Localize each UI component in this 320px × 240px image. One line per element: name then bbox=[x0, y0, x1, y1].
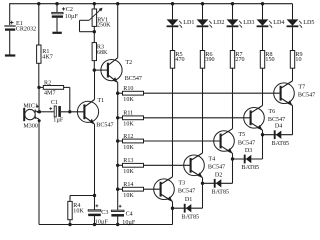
label R5 bbox=[175, 52, 182, 58]
wire: T3 emitter lead bbox=[172, 202, 174, 209]
label 10K (R11) bbox=[123, 122, 134, 128]
junction dot: T1 emitter / R4 / C3 node bbox=[93, 194, 96, 197]
diode D1 triangle bbox=[186, 204, 192, 212]
transistor T3 body bbox=[154, 179, 175, 200]
wire: T2 collector to top rail bbox=[117, 4, 119, 58]
svg-text:10K: 10K bbox=[123, 145, 134, 151]
label 1µF bbox=[53, 117, 64, 123]
svg-text:10K: 10K bbox=[73, 208, 84, 214]
wire: T1 collector to R3 node bbox=[93, 70, 95, 99]
svg-text:C2: C2 bbox=[66, 7, 73, 13]
junction dot: C4 on ground rail bbox=[116, 223, 119, 226]
wire: T1 emitter column bbox=[94, 124, 96, 195]
wire: mic minus to ground rail bbox=[38, 119, 40, 225]
wire: R2 right lead bbox=[64, 87, 70, 111]
wire: C3 to ground bbox=[94, 216, 96, 224]
wire: diode D4 run bbox=[263, 134, 293, 136]
resistor R12 bbox=[123, 139, 144, 143]
transistor T7 emitter bbox=[281, 98, 292, 105]
label 4M7 bbox=[44, 91, 56, 97]
wire: D2 up to next emitter node bbox=[232, 159, 234, 183]
svg-text:10µF: 10µF bbox=[95, 220, 109, 226]
LED LD4 light arrows bbox=[269, 21, 273, 28]
wire: diode D3 run bbox=[233, 158, 263, 160]
LED LD1 light arrows bbox=[179, 21, 183, 28]
label 10 (R9) bbox=[295, 57, 301, 63]
wire: C2 top lead bbox=[56, 4, 58, 13]
C2 plus sign bbox=[62, 7, 65, 10]
transistor T1 collector bbox=[85, 100, 95, 107]
label LD2 bbox=[213, 20, 224, 26]
wire: battery top lead bbox=[9, 4, 11, 25]
svg-text:T3: T3 bbox=[178, 180, 185, 186]
resistor R10 bbox=[123, 91, 144, 95]
MIC1 plus sign bbox=[36, 105, 39, 108]
svg-text:BAT85: BAT85 bbox=[182, 214, 200, 220]
microphone MIC1 plus pin bbox=[35, 110, 39, 113]
label 10K (R4) bbox=[73, 208, 84, 214]
transistor T4 body bbox=[184, 155, 205, 176]
label C4 bbox=[126, 212, 133, 218]
junction dot: C1/R2 node bbox=[68, 110, 71, 113]
svg-text:390: 390 bbox=[205, 57, 214, 63]
wire: R11 to transistor base bbox=[144, 117, 251, 119]
svg-text:CR2032: CR2032 bbox=[16, 26, 36, 32]
resistor R7 bbox=[230, 51, 234, 69]
wire: R14 left lead bbox=[118, 188, 123, 190]
label BC547 (T1) bbox=[96, 123, 113, 129]
wire: battery bottom lead bbox=[9, 31, 11, 55]
diode D3 cathode bar bbox=[244, 155, 246, 164]
svg-text:BAT85: BAT85 bbox=[272, 141, 290, 147]
wire: C3 top lead bbox=[94, 196, 96, 210]
wire: T7 emitter lead bbox=[292, 106, 294, 135]
label LD1 bbox=[183, 20, 194, 26]
wire: T2 emitter column bbox=[117, 82, 119, 210]
label R3 bbox=[97, 45, 104, 51]
label 10µF (C4) bbox=[122, 220, 136, 226]
wire: bottom ground rail bbox=[39, 224, 173, 226]
wire: R6 to T4 collector bbox=[202, 68, 204, 153]
wire: R10 to transistor base bbox=[144, 92, 281, 94]
junction dot: R4 on ground rail bbox=[68, 223, 71, 226]
svg-text:T7: T7 bbox=[298, 84, 305, 90]
junction dot: LED column 4 on top rail bbox=[261, 2, 264, 5]
transistor T2 collector bbox=[109, 58, 118, 65]
resistor R4 bbox=[68, 201, 72, 219]
transistor T3 emitter bbox=[161, 194, 172, 201]
label T3 bbox=[178, 180, 185, 186]
resistor R5 bbox=[170, 51, 174, 69]
resistor R11 bbox=[123, 116, 144, 120]
wire: R9 to T7 collector bbox=[292, 68, 294, 81]
svg-text:R10: R10 bbox=[123, 86, 133, 92]
capacitor C3 minus plate bbox=[88, 214, 101, 217]
transistor T6 base bar bbox=[250, 110, 252, 125]
diode D2 triangle bbox=[216, 179, 222, 187]
svg-text:470: 470 bbox=[175, 57, 184, 63]
transistor T3 collector bbox=[161, 177, 172, 184]
svg-text:1µF: 1µF bbox=[53, 117, 64, 123]
LED LD4 cathode bar bbox=[257, 25, 269, 27]
svg-text:BC547: BC547 bbox=[298, 93, 315, 99]
svg-text:BAT85: BAT85 bbox=[242, 165, 260, 171]
potentiometer RV1 body bbox=[92, 9, 97, 26]
wire: RV1 top lead bbox=[93, 4, 95, 9]
potentiometer RV1 wiper arrow bbox=[89, 8, 103, 21]
label R11 bbox=[123, 111, 133, 117]
svg-text:LD1: LD1 bbox=[183, 20, 194, 26]
label BC547 (T5) bbox=[238, 140, 255, 146]
label D2 bbox=[215, 172, 222, 178]
label 150 (R8) bbox=[265, 57, 274, 63]
svg-text:R13: R13 bbox=[123, 158, 133, 164]
label T5 bbox=[238, 132, 245, 138]
transistor T5 body bbox=[214, 131, 235, 152]
label R12 bbox=[123, 134, 133, 140]
wire: LD3 anode lead bbox=[232, 4, 234, 20]
transistor T2 emitter bbox=[109, 75, 118, 82]
svg-text:T2: T2 bbox=[125, 60, 132, 66]
wire: R1 column to mic node bbox=[38, 87, 40, 111]
junction dot: LED column 2 on top rail bbox=[201, 2, 204, 5]
wire: R5 to T3 collector bbox=[172, 68, 174, 177]
resistor R14 bbox=[123, 187, 144, 191]
svg-text:10µF: 10µF bbox=[122, 220, 136, 226]
wire: C4 to ground bbox=[117, 217, 119, 225]
battery E1 negative plate bbox=[5, 28, 15, 30]
label BAT85 (D4) bbox=[272, 141, 290, 147]
label 10K (R14) bbox=[123, 193, 134, 199]
label BC547 (T7) bbox=[298, 93, 315, 99]
transistor T1 base bar bbox=[83, 104, 85, 119]
junction dot: R13 tap bbox=[116, 164, 119, 167]
junction dot: R11 tap bbox=[116, 116, 119, 119]
wire: LED to R5 bbox=[172, 27, 174, 50]
svg-text:T1: T1 bbox=[97, 98, 104, 104]
capacitor C3 plus plate bbox=[88, 210, 101, 211]
svg-text:LD5: LD5 bbox=[303, 20, 314, 26]
wire: T5 emitter lead bbox=[232, 153, 234, 159]
svg-text:R11: R11 bbox=[123, 111, 133, 117]
LED LD3 light arrows bbox=[239, 21, 243, 28]
svg-text:C4: C4 bbox=[126, 212, 133, 218]
label BC547 (T3) bbox=[178, 189, 195, 195]
wire: RV1 wiper return bbox=[80, 20, 95, 31]
wire: R13 left lead bbox=[118, 164, 123, 166]
wire: LED to R8 bbox=[262, 27, 264, 50]
svg-text:LD3: LD3 bbox=[243, 20, 254, 26]
wire: C2 bottom lead bbox=[56, 18, 58, 32]
label BAT85 (D3) bbox=[242, 165, 260, 171]
label 10K (R13) bbox=[123, 169, 134, 175]
LED LD2 light arrows bbox=[209, 21, 213, 28]
battery E1 positive plate bbox=[4, 25, 15, 27]
label C2 bbox=[66, 7, 73, 13]
transistor T2 body bbox=[101, 60, 122, 81]
svg-text:10µF: 10µF bbox=[65, 14, 79, 20]
svg-text:LD4: LD4 bbox=[273, 20, 284, 26]
svg-text:C1: C1 bbox=[51, 100, 58, 106]
svg-text:M300: M300 bbox=[23, 124, 38, 130]
label R9 bbox=[295, 52, 302, 58]
wire: diode D1 run bbox=[173, 207, 203, 209]
transistor T5 collector bbox=[221, 129, 232, 136]
svg-text:LD2: LD2 bbox=[213, 20, 224, 26]
capacitor C2 positive plate bbox=[52, 12, 63, 13]
svg-text:T5: T5 bbox=[238, 132, 245, 138]
junction dot: R3 / T1 collector / T2 base node bbox=[93, 68, 96, 71]
junction dot: RV1 on top rail bbox=[93, 2, 96, 5]
junction dot: mic plus node bbox=[38, 110, 41, 113]
wire: LD4 anode lead bbox=[262, 4, 264, 20]
wire: mic to C1 bbox=[39, 111, 54, 113]
wire: RV1 to R3 bbox=[93, 32, 95, 43]
transistor T4 base bar bbox=[190, 158, 192, 173]
label M300 bbox=[23, 124, 38, 130]
junction dot: T2 collector on top rail bbox=[116, 2, 119, 5]
label BC547 (T4) bbox=[208, 165, 225, 171]
transistor T6 emitter bbox=[251, 123, 262, 130]
label T7 bbox=[298, 84, 305, 90]
svg-text:T4: T4 bbox=[208, 156, 215, 162]
wire: D1 up to next emitter node bbox=[202, 183, 204, 208]
wire: RV1 bottom lead bbox=[93, 26, 95, 31]
wire: R2 left lead bbox=[39, 86, 43, 88]
capacitor C1 plus plate bbox=[54, 106, 56, 117]
svg-text:10K: 10K bbox=[123, 122, 134, 128]
wire: R7 to T5 collector bbox=[232, 68, 234, 129]
svg-text:BC547: BC547 bbox=[238, 140, 255, 146]
LED LD4 triangle bbox=[257, 19, 269, 25]
capacitor C4 plus plate bbox=[111, 210, 124, 211]
label R6 bbox=[205, 52, 212, 58]
C1 plus sign bbox=[49, 107, 52, 110]
wire: LD5 anode lead bbox=[292, 4, 294, 20]
label R1 bbox=[42, 49, 49, 55]
label E1 bbox=[16, 21, 23, 27]
junction dot: R1 on top rail bbox=[37, 2, 40, 5]
diode D4 cathode bar bbox=[274, 130, 276, 139]
wire: LED to R9 bbox=[292, 27, 294, 50]
svg-text:4K7: 4K7 bbox=[42, 54, 53, 60]
label T6 bbox=[268, 109, 275, 115]
svg-text:R14: R14 bbox=[123, 182, 133, 188]
label BAT85 (D2) bbox=[212, 190, 230, 196]
label RV1 bbox=[97, 17, 108, 23]
junction dot: R12 tap bbox=[116, 139, 119, 142]
label 250K bbox=[97, 23, 111, 29]
wire: R11 left lead bbox=[118, 117, 123, 119]
label 10µF (C3) bbox=[95, 220, 109, 226]
ground terminal bar (C2) bbox=[52, 32, 61, 34]
svg-text:BC547: BC547 bbox=[125, 76, 142, 82]
wire: LED to R7 bbox=[232, 27, 234, 50]
svg-text:MIC1: MIC1 bbox=[23, 103, 38, 109]
LED LD3 cathode bar bbox=[227, 25, 239, 27]
svg-text:R12: R12 bbox=[123, 134, 133, 140]
wire: T4 emitter lead bbox=[202, 178, 204, 184]
junction dot: mic minus node bbox=[38, 119, 41, 122]
LED LD5 light arrows bbox=[299, 21, 303, 28]
label C1 bbox=[51, 100, 58, 106]
label T1 bbox=[97, 98, 104, 104]
label R7 bbox=[235, 52, 242, 58]
label 10K (R10) bbox=[123, 97, 134, 103]
wire: R1 top lead bbox=[38, 4, 40, 45]
label 270 (R7) bbox=[235, 57, 244, 63]
svg-text:BC547: BC547 bbox=[268, 117, 285, 123]
label R13 bbox=[123, 158, 133, 164]
svg-text:10K: 10K bbox=[123, 97, 134, 103]
svg-text:68K: 68K bbox=[97, 50, 108, 56]
transistor T4 emitter bbox=[191, 171, 202, 178]
microphone MIC1 minus pin bbox=[35, 115, 39, 119]
junction dot: LED column 3 on top rail bbox=[231, 2, 234, 5]
resistor R13 bbox=[123, 163, 144, 167]
transistor T5 base bar bbox=[220, 134, 222, 149]
wire: R1 bottom lead bbox=[38, 63, 40, 87]
resistor R8 bbox=[260, 51, 264, 69]
LED LD2 cathode bar bbox=[197, 25, 209, 27]
diode D2 cathode bar bbox=[214, 179, 216, 188]
resistor R2 bbox=[43, 86, 63, 90]
resistor R1 bbox=[37, 45, 41, 63]
svg-text:270: 270 bbox=[235, 57, 244, 63]
svg-text:D4: D4 bbox=[275, 124, 282, 130]
junction dot: C3 on ground rail bbox=[93, 223, 96, 226]
label 470 (R5) bbox=[175, 57, 184, 63]
diode D4 triangle bbox=[276, 131, 282, 139]
wire: node to R4 bbox=[70, 196, 95, 202]
capacitor C1 minus plate bbox=[58, 106, 61, 117]
label 10µF (C2) bbox=[65, 14, 79, 20]
svg-text:D1: D1 bbox=[185, 197, 192, 203]
wire: LD1 anode lead bbox=[172, 4, 174, 20]
label R2 bbox=[44, 80, 51, 86]
wire: R8 to T6 collector bbox=[262, 68, 264, 105]
label D1 bbox=[185, 197, 192, 203]
wire: R10 left lead bbox=[118, 92, 123, 94]
svg-text:BC547: BC547 bbox=[178, 189, 195, 195]
C3 plus sign bbox=[96, 204, 99, 207]
ground terminal bar (battery) bbox=[5, 54, 15, 56]
svg-text:BC547: BC547 bbox=[208, 165, 225, 171]
transistor T5 emitter bbox=[221, 146, 232, 153]
label LD4 bbox=[273, 20, 284, 26]
svg-text:BC547: BC547 bbox=[96, 123, 113, 129]
transistor T7 body bbox=[274, 83, 295, 104]
transistor T2 base bar bbox=[107, 63, 109, 78]
label BAT85 (D1) bbox=[182, 214, 200, 220]
svg-text:BAT85: BAT85 bbox=[212, 190, 230, 196]
junction dot: RV1 wiper node bbox=[93, 30, 96, 33]
capacitor C4 minus plate bbox=[111, 214, 124, 217]
transistor T7 collector bbox=[281, 81, 292, 88]
label D4 bbox=[275, 124, 282, 130]
label BC547 (T2) bbox=[125, 76, 142, 82]
svg-text:4M7: 4M7 bbox=[44, 91, 56, 97]
wire: D3 up to next emitter node bbox=[262, 135, 264, 159]
resistor R9 bbox=[290, 51, 294, 69]
wire: R14 to transistor base bbox=[144, 188, 161, 190]
LED LD3 triangle bbox=[227, 19, 239, 25]
wire: LD2 anode lead bbox=[202, 4, 204, 20]
label 10K (R12) bbox=[123, 145, 134, 151]
svg-text:10K: 10K bbox=[123, 193, 134, 199]
transistor T4 collector bbox=[191, 153, 202, 160]
wire: R13 to transistor base bbox=[144, 164, 191, 166]
resistor R3 bbox=[92, 43, 96, 61]
wire: C1 to T1 base bbox=[61, 111, 84, 113]
label R4 bbox=[73, 203, 80, 209]
label R14 bbox=[123, 182, 133, 188]
wire: R12 to transistor base bbox=[144, 140, 221, 142]
junction dot: emitter node T4 bbox=[201, 182, 204, 185]
label T4 bbox=[208, 156, 215, 162]
battery E1 plus sign bbox=[10, 21, 14, 25]
label LD5 bbox=[303, 20, 314, 26]
C4 plus sign bbox=[119, 205, 122, 208]
wire: R3 node to T2 base bbox=[94, 69, 108, 71]
label C3 bbox=[101, 210, 108, 216]
wire: ground rail riser to T3 emitter node bbox=[172, 208, 174, 224]
microphone MIC1 body bbox=[25, 109, 35, 119]
junction dot: LED column 1 on top rail bbox=[171, 2, 174, 5]
label R10 bbox=[123, 86, 133, 92]
junction dot: R10 tap bbox=[116, 92, 119, 95]
MIC1 minus sign bbox=[37, 111, 40, 113]
LED LD5 cathode bar bbox=[287, 25, 299, 27]
LED LD2 triangle bbox=[197, 19, 209, 25]
junction dot: emitter node T6 bbox=[261, 133, 264, 136]
label MIC1 bbox=[23, 103, 38, 109]
transistor T1 emitter bbox=[85, 117, 95, 124]
wire: top supply rail bbox=[9, 3, 292, 5]
LED LD1 triangle bbox=[167, 19, 179, 25]
junction dot: R1/R2 node bbox=[37, 86, 40, 89]
junction dot: R14 tap bbox=[116, 188, 119, 191]
transistor T6 body bbox=[244, 108, 265, 129]
label 68K bbox=[97, 50, 108, 56]
diode D3 triangle bbox=[246, 155, 252, 163]
wire: R4 to ground bbox=[69, 220, 71, 225]
resistor R6 bbox=[200, 51, 204, 69]
svg-text:D2: D2 bbox=[215, 172, 222, 178]
microphone MIC1 membrane bar bbox=[23, 108, 25, 121]
label LD3 bbox=[243, 20, 254, 26]
label 390 (R6) bbox=[205, 57, 214, 63]
LED LD1 cathode bar bbox=[167, 25, 179, 27]
label 4K7 bbox=[42, 54, 53, 60]
label BC547 (T6) bbox=[268, 117, 285, 123]
label T2 bbox=[125, 60, 132, 66]
diode D1 cathode bar bbox=[184, 204, 186, 213]
junction dot: C2 on top rail bbox=[55, 2, 58, 5]
wire: LED to R6 bbox=[202, 27, 204, 50]
svg-text:250K: 250K bbox=[97, 23, 111, 29]
label R8 bbox=[265, 52, 272, 58]
transistor T6 collector bbox=[251, 106, 262, 113]
svg-text:10K: 10K bbox=[123, 169, 134, 175]
svg-text:150: 150 bbox=[265, 57, 274, 63]
wire: R3 to node bbox=[93, 61, 95, 71]
wire: T6 emitter lead bbox=[262, 130, 264, 135]
svg-text:C3: C3 bbox=[101, 210, 108, 216]
label CR2032 bbox=[16, 26, 36, 32]
junction dot: emitter node T5 bbox=[231, 157, 234, 160]
svg-text:D3: D3 bbox=[245, 148, 252, 154]
